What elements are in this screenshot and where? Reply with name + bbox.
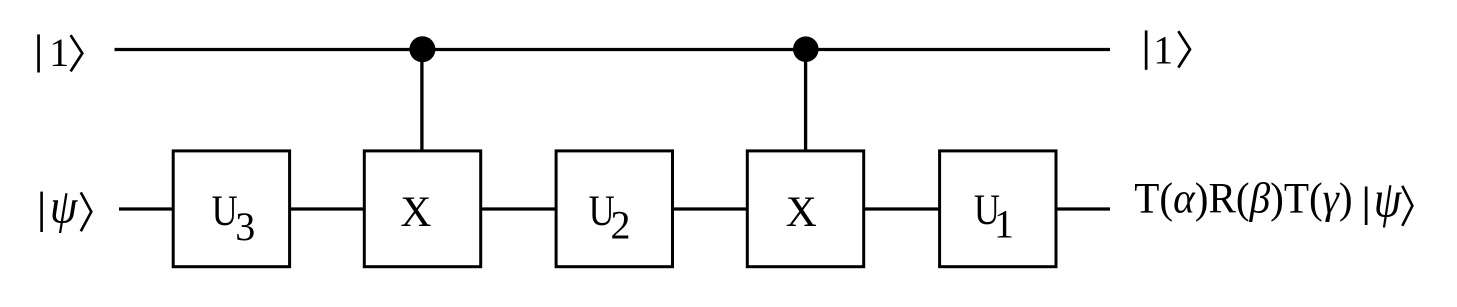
svg-text:X: X xyxy=(786,189,817,236)
wire: U3 to X1 xyxy=(290,207,366,210)
gate X1 box xyxy=(364,151,480,267)
svg-text:T(α)R(β)T(γ): T(α)R(β)T(γ) xyxy=(1134,175,1352,222)
ket |psi> label left xyxy=(40,179,91,234)
wire: U2 to X2 xyxy=(672,207,748,210)
svg-text:X: X xyxy=(400,189,431,236)
wire: X2 to U1 xyxy=(864,207,941,210)
wire: control 1 vertical xyxy=(420,50,423,151)
gate U3 label xyxy=(212,187,256,249)
gate X2 box xyxy=(747,151,863,267)
control dot 1 xyxy=(409,36,435,62)
svg-text:ψ: ψ xyxy=(50,179,78,234)
wire: X1 to U2 xyxy=(481,207,557,210)
gate U1 box xyxy=(940,151,1056,267)
gate X1 label xyxy=(400,189,431,236)
ket |1> label left xyxy=(37,30,82,75)
wire: control 2 vertical xyxy=(804,50,807,151)
svg-text:1: 1 xyxy=(994,202,1014,247)
svg-text:3: 3 xyxy=(235,204,255,249)
control dot 2 xyxy=(793,36,819,62)
gate X2 label xyxy=(786,189,817,236)
svg-text:ψ: ψ xyxy=(1374,171,1402,228)
gate U2 box xyxy=(556,151,672,267)
gate U1 label xyxy=(974,186,1014,247)
wire: bottom left stub xyxy=(119,207,174,210)
output label T(a)R(b)T(g)|psi> xyxy=(1134,171,1412,228)
svg-text:1: 1 xyxy=(1153,28,1173,73)
gate U3 box xyxy=(173,151,289,267)
svg-text:U: U xyxy=(212,187,238,235)
ket |1> label right xyxy=(1145,28,1190,73)
svg-text:1: 1 xyxy=(49,30,69,75)
gate U2 label xyxy=(589,187,631,248)
wire: top qubit line xyxy=(115,48,1111,51)
wire: U1 to right stub xyxy=(1056,207,1110,210)
svg-text:2: 2 xyxy=(611,203,631,248)
